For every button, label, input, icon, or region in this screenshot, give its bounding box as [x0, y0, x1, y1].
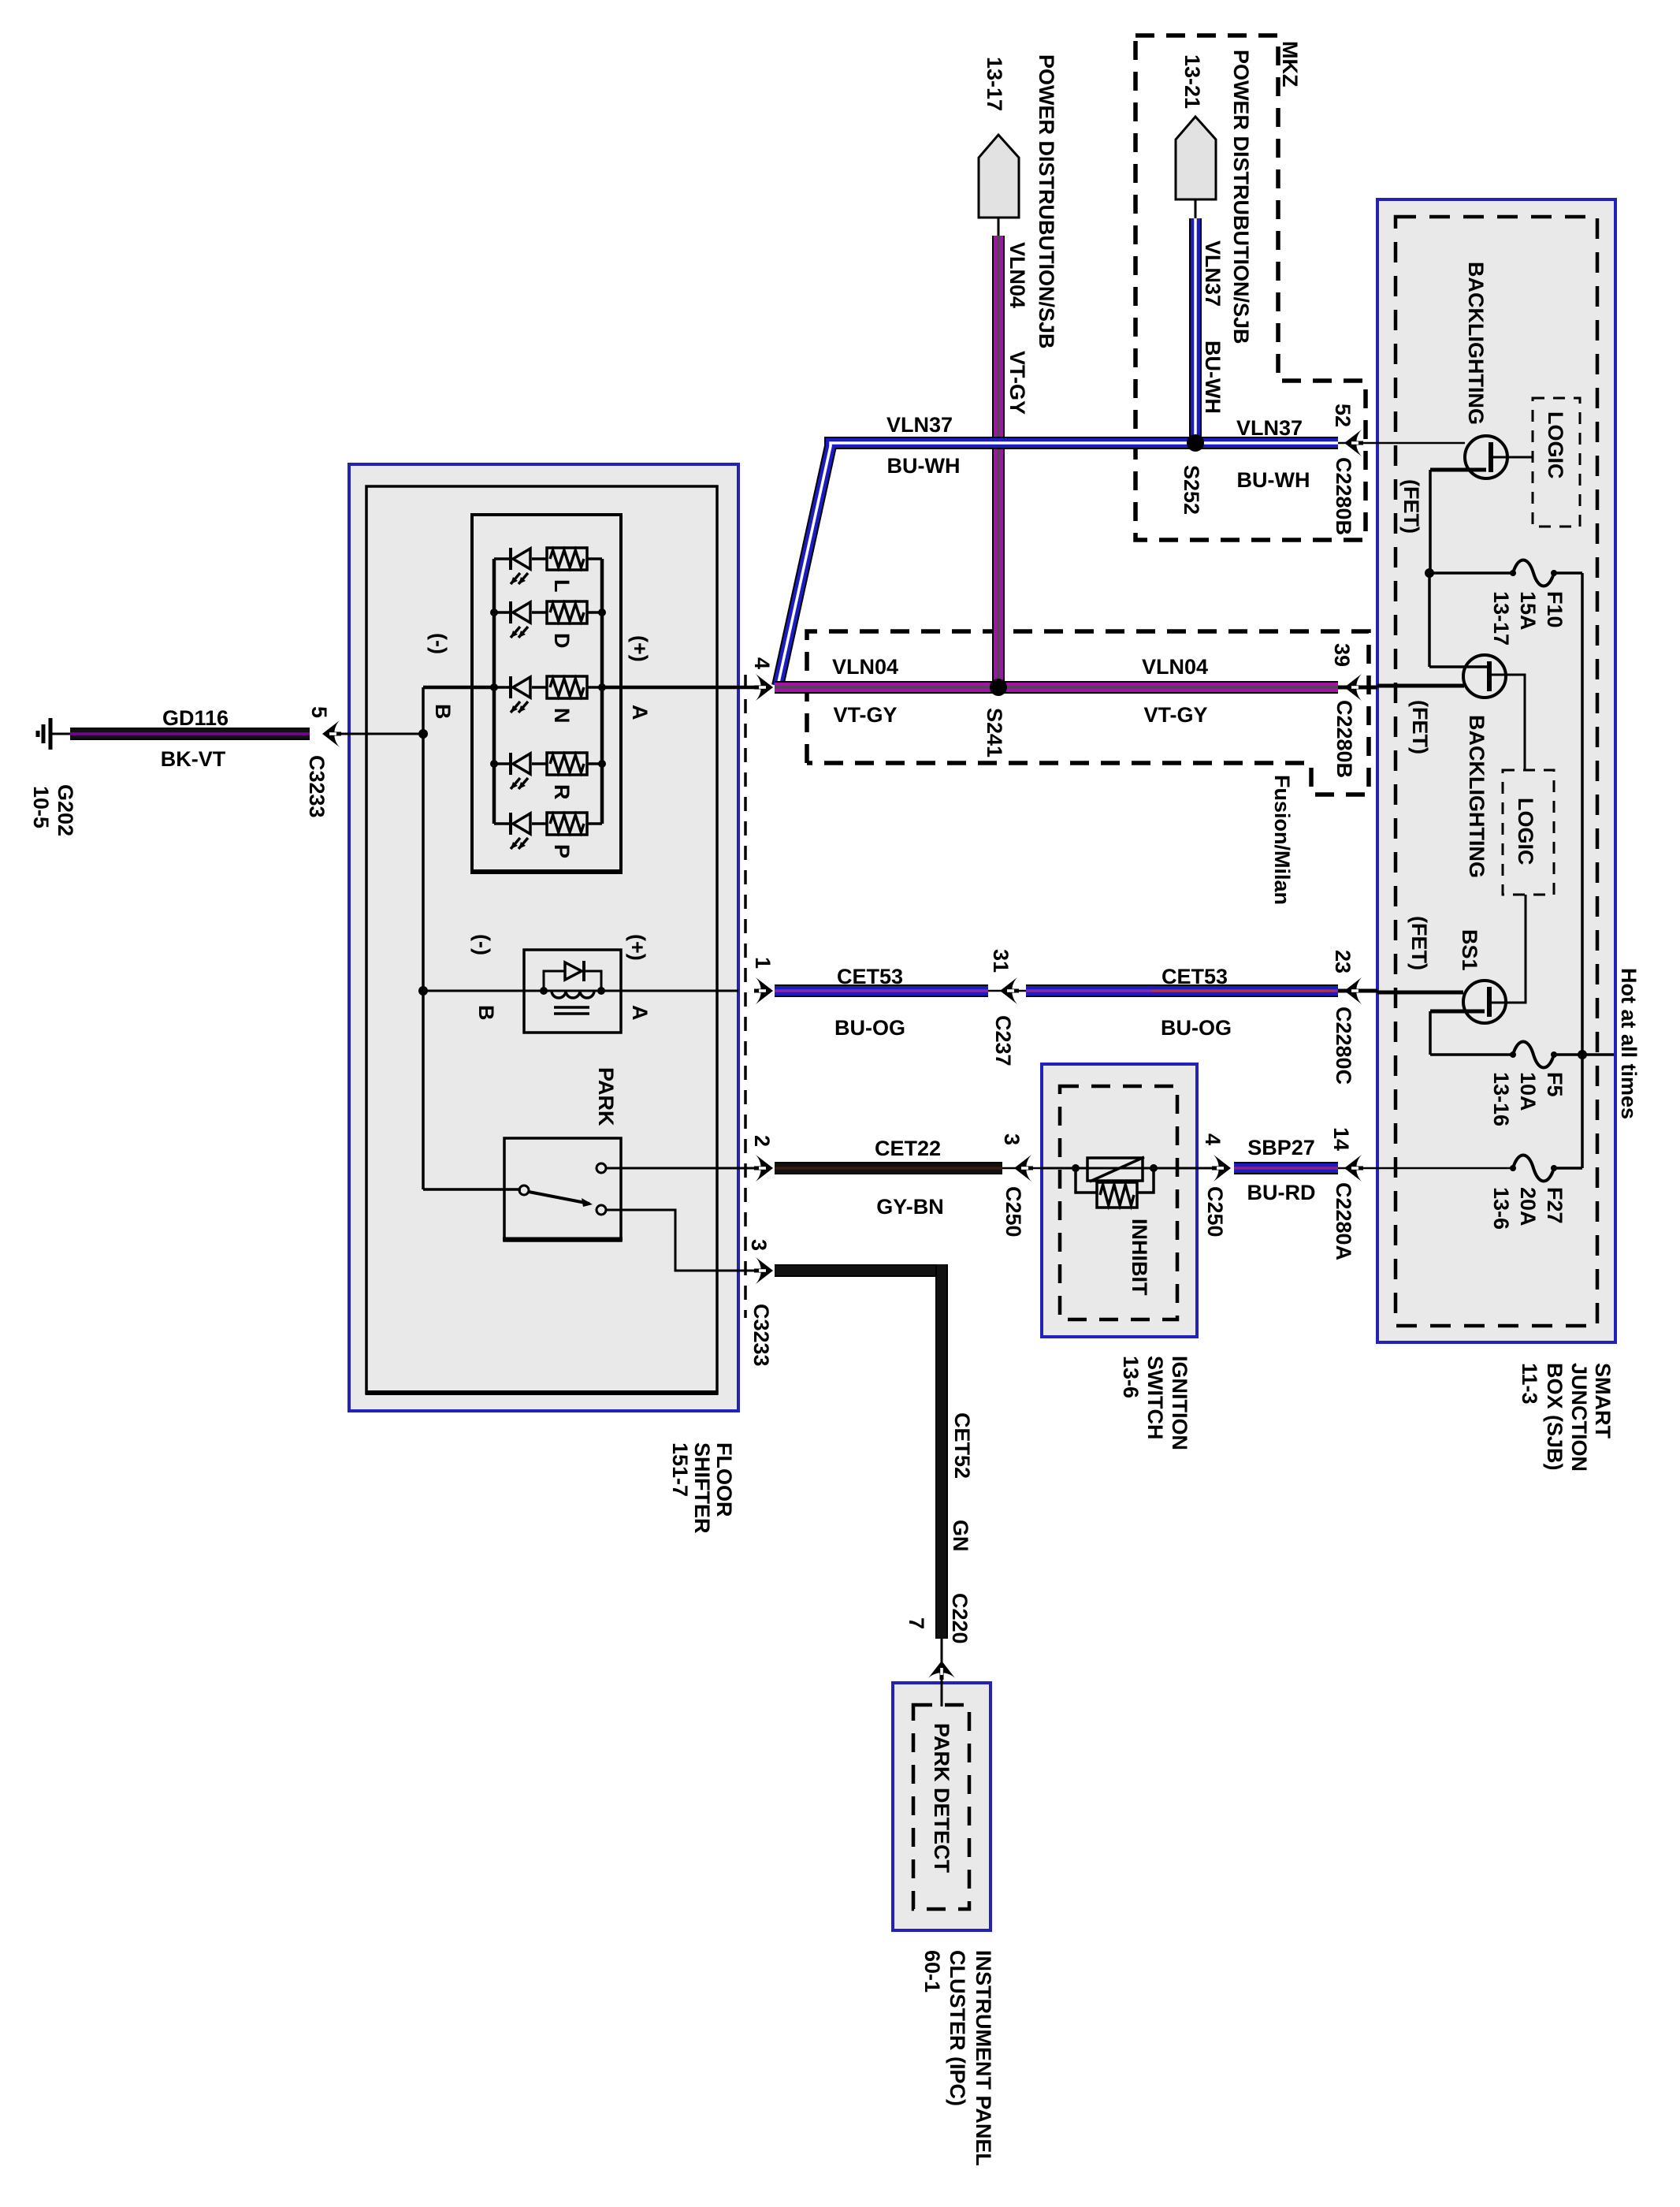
label (-) solenoid [470, 934, 494, 955]
wire GD116 BK-VT [70, 728, 310, 740]
svg-text:SMART: SMART [1591, 1363, 1615, 1438]
svg-text:F10: F10 [1543, 591, 1567, 628]
svg-text:VLN37: VLN37 [1201, 240, 1225, 307]
wire CET53 BU-OG right [1026, 984, 1338, 997]
svg-text:15A: 15A [1516, 591, 1540, 631]
svg-text:13-17: 13-17 [1489, 591, 1513, 646]
hot bus feed wire [1554, 1053, 1614, 1056]
B bus vertical wire [423, 687, 521, 1189]
LED N [509, 676, 530, 713]
svg-text:GN: GN [949, 1520, 972, 1552]
wire VLN37 BU-WH horizontal with diagonal [778, 443, 1338, 686]
label C3233 upper [305, 755, 329, 818]
svg-text:(+): (+) [626, 934, 649, 961]
label 13-21 [1180, 54, 1204, 109]
label CET53 left [834, 965, 905, 1040]
label pin 1 [751, 957, 775, 969]
label A LED [628, 705, 652, 720]
LED right bus [600, 559, 604, 824]
connector arrow C2280C pin 23 [1338, 977, 1377, 1004]
label VLN04 VT-GY vertical [1005, 242, 1029, 415]
wire CET22 GY-BN [775, 1162, 1002, 1174]
label POWER DISTRUBUTION/SJB 1 [1035, 54, 1058, 349]
FET U1 gate wire [1493, 456, 1533, 459]
label (FET) 1 [1399, 479, 1423, 534]
svg-text:VLN37: VLN37 [1236, 416, 1303, 440]
svg-text:A: A [628, 705, 652, 720]
svg-text:CET53: CET53 [1162, 965, 1228, 988]
svg-text:Fusion/Milan: Fusion/Milan [1270, 775, 1294, 905]
svg-text:VT-GY: VT-GY [833, 703, 897, 727]
svg-text:R: R [550, 784, 574, 800]
label F10 15A 13-17 [1489, 591, 1567, 646]
smart junction box (SJB) outline [1377, 199, 1615, 1342]
MKZ label [1278, 41, 1302, 87]
svg-text:C2280C: C2280C [1332, 1007, 1355, 1085]
svg-text:20A: 20A [1516, 1187, 1540, 1226]
wire CET52 GN [775, 1264, 942, 1639]
svg-text:BU-WH: BU-WH [887, 454, 961, 478]
label pin 31 [989, 949, 1013, 973]
label C2280C [1332, 1007, 1355, 1085]
svg-text:23: 23 [1331, 950, 1355, 973]
wire pin39 to FET U2 [1377, 684, 1464, 688]
svg-text:F27: F27 [1543, 1187, 1567, 1224]
label pin 23 [1331, 950, 1355, 973]
label C3233 lower [749, 1304, 773, 1367]
label PARK DETECT [930, 1723, 953, 1874]
svg-text:PARK DETECT: PARK DETECT [930, 1723, 953, 1874]
svg-text:CLUSTER (IPC): CLUSTER (IPC) [946, 1950, 969, 2106]
svg-text:C2280A: C2280A [1332, 1182, 1355, 1260]
svg-text:(-): (-) [470, 934, 494, 955]
fuse F27 [1510, 1156, 1557, 1182]
svg-text:CET52: CET52 [950, 1412, 974, 1479]
svg-text:VLN04: VLN04 [1142, 655, 1208, 679]
label VLN37 left [886, 413, 961, 478]
park switch contact lower [597, 1205, 606, 1215]
svg-text:4: 4 [750, 657, 774, 669]
label LOGIC 2 [1514, 798, 1537, 865]
label C2280B upper [1332, 457, 1355, 535]
connector C250 left [1002, 1155, 1042, 1182]
Fusion/Milan dashed box [807, 631, 1369, 795]
pin 1 connector arrow [754, 977, 773, 1004]
svg-text:S241: S241 [983, 708, 1006, 757]
wire into IPC [941, 1683, 943, 1706]
BS1 source wire [1430, 1011, 1513, 1055]
svg-text:BACKLIGHTING: BACKLIGHTING [1464, 262, 1488, 425]
svg-text:BU-OG: BU-OG [1161, 1016, 1232, 1040]
svg-text:BU-WH: BU-WH [1237, 468, 1310, 492]
inhibit junction dots [1072, 1164, 1158, 1172]
LED left bus [492, 559, 496, 824]
label CET22 [875, 1137, 944, 1219]
label pin 4 C250 [1201, 1133, 1225, 1145]
label A solenoid [628, 1005, 652, 1021]
junction dots at branch y=777 [490, 609, 606, 616]
fuse F10 [1510, 560, 1557, 586]
solenoid inductor [552, 991, 594, 1014]
label (-) LED [427, 633, 451, 654]
label VLN37 right [1236, 416, 1310, 492]
svg-text:VLN04: VLN04 [1005, 242, 1029, 308]
resistor P [547, 813, 587, 835]
junction dots at branch y=872 [490, 683, 606, 691]
svg-text:F5: F5 [1543, 1072, 1567, 1097]
wire CET53 BU-OG left [775, 984, 988, 997]
power distribution arrow 1 [979, 135, 1019, 236]
svg-text:N: N [550, 708, 574, 724]
label N [550, 708, 574, 724]
svg-text:5: 5 [307, 706, 331, 718]
svg-text:LOGIC: LOGIC [1514, 798, 1537, 865]
label CET53 right [1161, 965, 1232, 1040]
floor shifter assembly box [349, 464, 738, 1411]
svg-text:VT-GY: VT-GY [1143, 703, 1207, 727]
label pin 4 [750, 657, 774, 669]
label SBP27 [1247, 1136, 1316, 1204]
label pin 39 [1330, 643, 1354, 667]
wire hot bus to F27 [1554, 1055, 1582, 1168]
FET U1 source wire [1430, 470, 1513, 573]
svg-text:4: 4 [1201, 1133, 1225, 1145]
label C237 [991, 1015, 1015, 1066]
wire VLN04 VT-GY vertical [992, 236, 1005, 687]
resistor N [547, 676, 587, 698]
svg-text:S252: S252 [1180, 465, 1203, 515]
svg-text:14: 14 [1329, 1127, 1353, 1151]
junction dot solenoid tap [418, 986, 428, 996]
svg-text:L: L [550, 579, 574, 593]
junction dot ground tap [418, 729, 428, 739]
label F5 10A 13-16 [1489, 1072, 1567, 1126]
junction S241 [990, 679, 1007, 696]
logic box 2 [1503, 770, 1554, 895]
inhibit variable resistor [1087, 1157, 1144, 1182]
svg-text:BU-OG: BU-OG [834, 1016, 905, 1040]
label B solenoid [474, 1005, 498, 1021]
label Hot at all times [1617, 968, 1641, 1119]
svg-text:13-6: 13-6 [1119, 1356, 1143, 1398]
pin 4 C250 connector arrow [1212, 1155, 1231, 1182]
label BS1 [1458, 929, 1481, 971]
label P [550, 844, 574, 858]
svg-text:PARK: PARK [594, 1067, 618, 1126]
svg-text:11-3: 11-3 [1518, 1363, 1541, 1405]
wire F10 to hot bus [1554, 573, 1582, 1055]
svg-text:VLN37: VLN37 [886, 413, 953, 437]
transistor U1 (FET) [1465, 436, 1507, 478]
LED branch L wiring [494, 557, 602, 560]
logic2 to BS1 gate wire [1492, 895, 1526, 1003]
park switch box [503, 1138, 623, 1241]
label INHIBIT [1128, 1219, 1151, 1296]
label BACKLIGHTING 1 [1464, 262, 1488, 425]
svg-text:CET53: CET53 [837, 965, 903, 988]
svg-text:C2280B: C2280B [1332, 457, 1355, 535]
transistor U2 (FET) [1463, 655, 1506, 698]
LED D [509, 601, 530, 638]
label IGNITION SWITCH 13-6 [1119, 1356, 1191, 1450]
label VLN37 BU-WH vertical [1201, 240, 1225, 414]
label pin 5 [307, 706, 331, 718]
svg-text:C2280B: C2280B [1332, 700, 1356, 778]
pin 3 connector arrow [754, 1257, 773, 1284]
svg-text:C250: C250 [1002, 1186, 1025, 1237]
svg-text:10-5: 10-5 [29, 786, 53, 828]
label LOGIC 1 [1544, 411, 1567, 479]
svg-text:3: 3 [747, 1239, 771, 1251]
LED R [509, 753, 530, 789]
svg-text:39: 39 [1330, 643, 1354, 667]
label pin 7 [905, 1617, 928, 1629]
label C250 right [1203, 1186, 1227, 1237]
svg-text:7: 7 [905, 1617, 928, 1629]
svg-text:2: 2 [750, 1135, 774, 1147]
svg-text:1: 1 [751, 957, 775, 969]
connector arrow C2280A pin 14 [1338, 1155, 1377, 1182]
label BACKLIGHTING 2 [1465, 715, 1489, 878]
svg-text:SBP27: SBP27 [1247, 1136, 1315, 1159]
svg-text:13-17: 13-17 [983, 57, 1006, 111]
svg-text:60-1: 60-1 [920, 1950, 944, 1993]
label pin 2 [750, 1135, 774, 1147]
label CET52 GN [949, 1412, 974, 1552]
fuse F5 [1510, 1042, 1557, 1068]
solenoid branch wire [423, 990, 738, 992]
label (FET) 3 [1407, 916, 1431, 970]
svg-text:13-16: 13-16 [1489, 1072, 1513, 1126]
svg-text:(FET): (FET) [1407, 916, 1431, 970]
label pin 3 [747, 1239, 771, 1251]
label POWER DISTRUBUTION/SJB 2 [1229, 50, 1253, 344]
svg-text:B: B [431, 704, 455, 720]
LED P [509, 813, 530, 849]
ground G202 symbol [38, 718, 70, 750]
wire pin52 to FET U1 [1377, 442, 1465, 445]
connector arrow C3233 pin 5 [322, 720, 423, 747]
junction dots at branch y=969 [490, 760, 606, 768]
label R [550, 784, 574, 800]
park switch contact pin2 [597, 1163, 606, 1173]
svg-text:(FET): (FET) [1408, 700, 1432, 754]
solenoid junction dots [540, 987, 605, 995]
LED cluster box [471, 515, 622, 873]
svg-text:D: D [550, 633, 574, 649]
label L [550, 579, 574, 593]
label (+) solenoid [626, 934, 649, 961]
junction S252 [1187, 434, 1204, 452]
junction dot hot bus [1578, 1050, 1587, 1059]
label PARK [594, 1067, 618, 1126]
svg-text:POWER DISTRUBUTION/SJB: POWER DISTRUBUTION/SJB [1229, 50, 1253, 344]
solenoid box [524, 950, 621, 1033]
LED L [509, 548, 530, 584]
junction dot F10 feed [1425, 568, 1434, 578]
label C250 left [1002, 1186, 1025, 1237]
label B LED [431, 704, 455, 720]
svg-text:IGNITION: IGNITION [1168, 1356, 1191, 1450]
label C2280B lower [1332, 700, 1356, 778]
wire pin4 feed through LED row [423, 686, 738, 690]
svg-text:JUNCTION: JUNCTION [1567, 1363, 1591, 1472]
label G202 10-5 [29, 784, 77, 836]
svg-text:A: A [628, 1005, 652, 1021]
label VLN04 right [1142, 655, 1208, 727]
svg-text:31: 31 [989, 949, 1013, 973]
svg-text:52: 52 [1331, 404, 1355, 427]
MKZ dashed box [1135, 35, 1366, 540]
transistor BS1 (FET) [1463, 981, 1506, 1023]
label pin 52 [1331, 404, 1355, 427]
svg-text:B: B [474, 1005, 498, 1021]
svg-text:151-7: 151-7 [668, 1442, 692, 1497]
svg-text:POWER DISTRUBUTION/SJB: POWER DISTRUBUTION/SJB [1035, 54, 1058, 349]
svg-text:GY-BN: GY-BN [876, 1195, 944, 1219]
wire pin23 to BS1 [1377, 991, 1463, 995]
resistor L [547, 548, 587, 570]
LED branch P wiring [494, 822, 602, 825]
logic box 1 [1533, 398, 1580, 527]
inhibit wiring [1042, 1167, 1214, 1170]
C3233 connector face dashed line [744, 675, 747, 1318]
svg-text:LOGIC: LOGIC [1544, 411, 1567, 479]
wire VLN04 VT-GY horizontal [775, 681, 1338, 694]
instrument panel cluster (IPC) box [893, 1683, 991, 1930]
label pin 3 C250 [1000, 1133, 1024, 1145]
label D [550, 633, 574, 649]
ignition switch box [1042, 1064, 1197, 1337]
label (FET) 2 [1408, 700, 1432, 754]
svg-text:P: P [550, 844, 574, 858]
FET U2 gate wire [1492, 675, 1525, 770]
park switch blade [529, 1192, 593, 1207]
svg-text:BACKLIGHTING: BACKLIGHTING [1465, 715, 1489, 878]
solenoid diode loop [544, 961, 601, 991]
wire pin3 from switch [606, 1210, 755, 1271]
svg-text:3: 3 [1000, 1133, 1024, 1145]
label C2280A [1332, 1182, 1355, 1260]
wire F27 to pin14 [1377, 1167, 1513, 1170]
pin 4 connector arrow [738, 674, 773, 701]
inhibit bypass resistor [1076, 1168, 1154, 1208]
pin 2 connector arrow [754, 1155, 773, 1182]
svg-text:(-): (-) [427, 633, 451, 654]
label S252 [1180, 465, 1203, 515]
svg-text:C3233: C3233 [305, 755, 329, 818]
svg-text:13-21: 13-21 [1180, 54, 1204, 109]
svg-text:C250: C250 [1203, 1186, 1227, 1237]
wire VLN37 BU-WH vertical [1189, 218, 1202, 443]
connector arrow C2280B pin 39 [1338, 674, 1377, 701]
svg-text:SWITCH: SWITCH [1143, 1356, 1167, 1439]
power distribution arrow 2 [1176, 117, 1216, 218]
label C220 [948, 1593, 972, 1644]
label INSTRUMENT PANEL CLUSTER (IPC) 60-1 [920, 1950, 995, 2166]
wire SBP27 BU-RD [1234, 1162, 1338, 1174]
svg-text:G202: G202 [54, 784, 77, 836]
svg-text:BOX (SJB): BOX (SJB) [1543, 1363, 1567, 1471]
connector C237 [988, 977, 1026, 1004]
svg-text:BU-RD: BU-RD [1247, 1181, 1316, 1204]
svg-text:BK-VT: BK-VT [161, 747, 226, 771]
svg-text:Hot at all times: Hot at all times [1617, 968, 1641, 1119]
label (+) LED [628, 635, 652, 662]
svg-text:C3233: C3233 [749, 1304, 773, 1367]
svg-text:BS1: BS1 [1458, 929, 1481, 971]
connector C220 pin 7 [928, 1639, 955, 1683]
wire pin2 from switch [606, 1167, 755, 1170]
svg-text:10A: 10A [1516, 1072, 1540, 1111]
svg-text:(+): (+) [628, 635, 652, 662]
svg-text:INSTRUMENT PANEL: INSTRUMENT PANEL [972, 1950, 995, 2166]
svg-text:CET22: CET22 [875, 1137, 941, 1160]
label S241 [983, 708, 1006, 757]
label FLOOR SHIFTER 151-7 [668, 1442, 736, 1534]
resistor D [547, 601, 587, 623]
svg-text:(FET): (FET) [1399, 479, 1423, 534]
label pin 14 [1329, 1127, 1353, 1151]
svg-text:VLN04: VLN04 [832, 655, 898, 679]
LED branch R wiring [494, 762, 602, 765]
connector arrow C2280B pin 52 [1338, 430, 1377, 456]
svg-text:INHIBIT: INHIBIT [1128, 1219, 1151, 1296]
label VLN04 left [832, 655, 898, 727]
svg-text:GD116: GD116 [162, 706, 229, 730]
resistor R [547, 753, 587, 775]
svg-text:VT-GY: VT-GY [1005, 351, 1029, 415]
Fusion/Milan label [1270, 775, 1294, 905]
LED branch D wiring [494, 611, 602, 614]
label GD116 [161, 706, 229, 771]
svg-text:MKZ: MKZ [1278, 41, 1302, 87]
label SMART JUNCTION BOX (SJB) 11-3 [1518, 1363, 1615, 1472]
svg-text:BU-WH: BU-WH [1201, 341, 1225, 414]
LED branch N wiring [494, 686, 602, 689]
park switch common contact [519, 1185, 529, 1195]
svg-text:C237: C237 [991, 1015, 1015, 1066]
svg-text:13-6: 13-6 [1489, 1187, 1513, 1230]
label 13-17 [983, 57, 1006, 111]
label F27 20A 13-6 [1489, 1187, 1567, 1230]
FET U2 source wire [1429, 573, 1488, 667]
svg-text:C220: C220 [948, 1593, 972, 1644]
svg-text:SHIFTER: SHIFTER [690, 1442, 714, 1534]
svg-text:FLOOR: FLOOR [712, 1442, 736, 1517]
